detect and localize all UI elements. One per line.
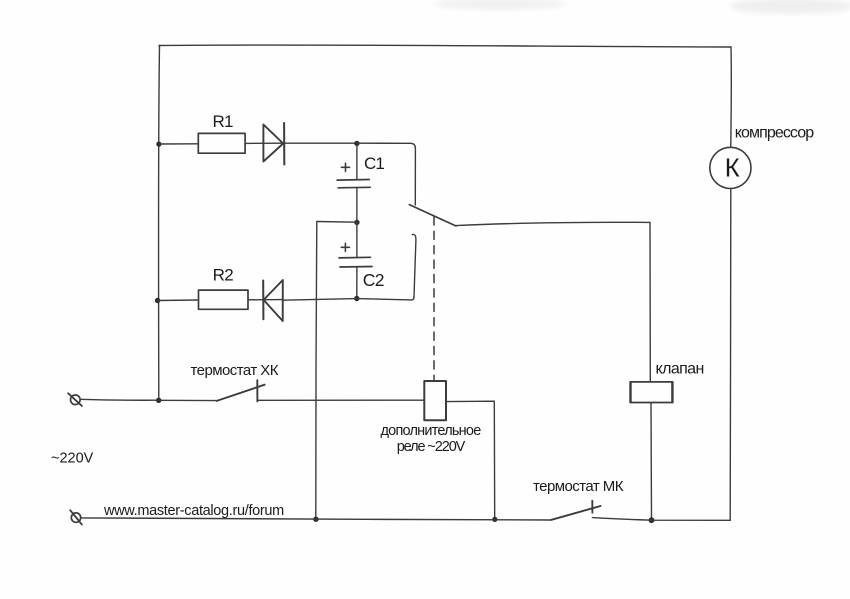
svg-text:R1: R1 xyxy=(213,112,233,131)
capacitor C1 lead top xyxy=(356,145,358,179)
wire R1 to diode xyxy=(245,142,283,144)
svg-text:клапан: клапан xyxy=(656,360,704,377)
node valve bottom xyxy=(649,517,655,523)
wire right rail lower xyxy=(729,189,732,521)
svg-text:www.master-catalog.ru/forum: www.master-catalog.ru/forum xyxy=(103,503,284,519)
wire mid vertical to bottom rail xyxy=(316,222,317,520)
capacitor C1 lead bottom xyxy=(356,188,358,220)
svg-text:реле ~220V: реле ~220V xyxy=(397,439,466,455)
wire terminal to left rail xyxy=(80,398,158,401)
valve coil (клапан) xyxy=(630,382,672,403)
wire bottom rail right xyxy=(592,518,730,521)
compressor motor circle xyxy=(710,147,751,188)
svg-text:К: К xyxy=(725,154,740,182)
node R2 left rail xyxy=(155,298,160,303)
node left rail R1 xyxy=(156,142,161,147)
thermostat MK contact tick xyxy=(591,501,593,513)
wire R2 to diode xyxy=(248,299,283,301)
thermostat MK arm xyxy=(551,506,601,520)
svg-text:дополнительное: дополнительное xyxy=(381,423,482,439)
wire diode D2 to node xyxy=(283,299,357,301)
diode D2 xyxy=(262,281,264,320)
C1 polarity plus xyxy=(341,163,349,171)
resistor R1 xyxy=(198,133,245,153)
svg-text:термостат ХК: термостат ХК xyxy=(191,362,279,379)
capacitor C2 plates xyxy=(339,256,370,259)
dashed actuator link xyxy=(433,217,435,380)
wire switch to valve branch xyxy=(456,222,650,225)
wire top bus xyxy=(159,45,731,47)
wire bottom rail left xyxy=(81,518,551,520)
wire lower contact vertical xyxy=(412,234,416,297)
thermostat XK arm xyxy=(217,385,265,401)
node C2 bottom xyxy=(354,296,359,301)
node relay branch bottom xyxy=(492,517,497,522)
wire node to XK switch xyxy=(159,399,217,401)
svg-text:термостат МК: термостат МК xyxy=(533,478,624,495)
wire node to switch common xyxy=(357,143,416,205)
resistor R2 xyxy=(199,290,249,309)
svg-text:~220V: ~220V xyxy=(51,451,94,467)
terminal upper (phase) xyxy=(71,395,81,405)
wire right rail upper xyxy=(730,47,733,148)
scan smudge top left xyxy=(434,0,566,10)
relay contact arm (switch) xyxy=(409,205,456,226)
capacitor C2 lead bottom xyxy=(356,268,358,299)
thermostat XK contact tick xyxy=(256,380,258,401)
C2 polarity plus xyxy=(341,243,349,251)
diode D1 xyxy=(263,125,283,162)
wire relay coil right xyxy=(446,401,495,519)
wire R2 row left segment xyxy=(158,299,199,302)
wire C2 node to lower contact xyxy=(357,297,414,300)
svg-text:C1: C1 xyxy=(364,154,384,173)
node left rail bottom xyxy=(156,398,161,403)
wire R1 row left segment xyxy=(159,143,198,145)
wire XK to relay coil xyxy=(258,399,425,401)
svg-text:C2: C2 xyxy=(363,270,384,290)
wire left rail xyxy=(158,46,161,401)
capacitor C2 lead top xyxy=(356,222,358,256)
node mid C1/C2 xyxy=(354,220,359,225)
capacitor C1 plates xyxy=(337,179,369,182)
wire diode D1 to node xyxy=(284,142,357,144)
svg-text:компрессор: компрессор xyxy=(735,125,815,142)
scan smudge top right xyxy=(730,0,850,14)
node C1 top xyxy=(354,141,359,146)
wire valve branch lower xyxy=(650,403,653,520)
svg-text:R2: R2 xyxy=(213,265,234,284)
node mid vertical bottom xyxy=(313,517,318,522)
relay coil K1 xyxy=(424,381,446,420)
terminal lower (neutral) xyxy=(71,513,80,522)
wire valve branch upper xyxy=(649,222,651,381)
wire mid node left xyxy=(317,221,357,224)
